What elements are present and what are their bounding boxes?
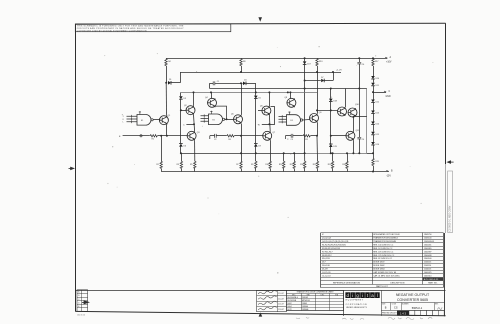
svg-text:INTEGRATED CKT DEC74-09: INTEGRATED CKT DEC74-09 <box>373 233 399 236</box>
wire R13 to rail <box>317 66 319 72</box>
title block drawing title <box>381 290 383 316</box>
scan speckles <box>196 71 197 72</box>
svg-text:RES. 270 1/4W 10% CC: RES. 270 1/4W 10% CC <box>373 255 395 257</box>
svg-text:R4: R4 <box>168 61 170 63</box>
wire Q3 emitter to R5 <box>194 140 196 161</box>
diode D14 <box>373 113 375 121</box>
wire Q10 emitter to box edge <box>356 116 367 118</box>
svg-text:D19: D19 <box>333 146 336 148</box>
wire D18 to Q11 base <box>330 101 332 135</box>
wire D17 down left box edge <box>304 64 306 153</box>
svg-text:R3,R6,R13,R14,R18: R3,R6,R13,R14,R18 <box>322 248 340 250</box>
wire Q7 collector to Q6 emitter <box>268 115 271 131</box>
top centering mark <box>258 17 262 22</box>
gate E3 input stubs <box>288 112 290 115</box>
diode D5 <box>254 96 258 99</box>
pencil marks below title block <box>388 317 432 320</box>
resistor R15 <box>294 153 296 161</box>
svg-text:DIODE D662: DIODE D662 <box>373 265 384 267</box>
diode D13 <box>373 102 375 110</box>
diode D6 <box>179 144 183 147</box>
svg-text:D4: D4 <box>244 80 246 82</box>
svg-text:A-PL-5605-0-1D: A-PL-5605-0-1D <box>424 278 439 281</box>
revision pointer arrow <box>84 300 90 304</box>
svg-text:DEC3009B-S: DEC3009B-S <box>287 297 298 299</box>
gate E1 <box>137 115 153 126</box>
svg-text:l: l <box>377 293 378 298</box>
svg-text:C O R P O R A T I O N: C O R P O R A T I O N <box>346 303 367 306</box>
svg-text:R2: R2 <box>156 164 158 166</box>
right edge fold strip with vertical drawing number <box>448 171 453 233</box>
svg-text:C1: C1 <box>217 81 219 83</box>
svg-text:D12: D12 <box>376 102 379 104</box>
svg-text:1300365: 1300365 <box>424 248 432 250</box>
svg-text:1503409-01: 1503409-01 <box>424 241 434 243</box>
svg-text:1N3606: 1N3606 <box>302 306 308 308</box>
svg-text:1503100: 1503100 <box>424 238 432 240</box>
resistor R14 <box>283 153 285 161</box>
svg-text:RES. 82 1/4W 5% CC: RES. 82 1/4W 5% CC <box>373 258 393 260</box>
svg-text:D662: D662 <box>287 303 291 305</box>
wire -15V bottom bus <box>161 171 388 173</box>
diode D3 <box>180 92 182 96</box>
svg-text:D5: D5 <box>258 98 260 100</box>
diode D18 <box>330 89 332 99</box>
svg-text:R14: R14 <box>279 164 282 166</box>
wire C6 down <box>359 64 361 137</box>
svg-text:Q1,Q2,Q3: Q1,Q2,Q3 <box>322 238 331 240</box>
wire RC branch B <box>284 136 286 139</box>
svg-text:NEGATIVE OUTPUT: NEGATIVE OUTPUT <box>396 293 430 297</box>
svg-text:C4: C4 <box>362 139 364 141</box>
svg-text:+10V: +10V <box>386 62 392 64</box>
svg-text:1300397: 1300397 <box>424 251 432 253</box>
svg-text:REV.: REV. <box>435 304 439 306</box>
gate E1 input stubs <box>139 111 141 114</box>
svg-text:CONVERTER 5605: CONVERTER 5605 <box>397 298 428 302</box>
wire Q6 emitter hook to D node <box>271 106 275 108</box>
svg-text:E3: E3 <box>291 120 293 122</box>
svg-text:D9: D9 <box>258 145 260 147</box>
resistor R17 <box>372 58 374 65</box>
svg-text:CAP .01 MFD 100V 20% DISC: CAP .01 MFD 100V 20% DISC <box>373 274 400 277</box>
signature row ENG <box>258 301 277 304</box>
diode D9 <box>254 144 258 147</box>
wire Q6 collector to driver bus <box>269 92 271 106</box>
node GND junction <box>372 91 374 93</box>
left centering mark <box>70 167 75 171</box>
transistor and diode conversion chart <box>286 290 343 310</box>
wire Q9 emitter down <box>317 122 319 135</box>
resistor R13 <box>316 58 318 65</box>
wire Q6 base stub <box>258 110 262 112</box>
diode D15 <box>373 124 375 132</box>
svg-text:+1.2V: +1.2V <box>336 70 342 72</box>
svg-text:NUMBER: NUMBER <box>402 304 409 306</box>
wire driver bus y92.4 (gray) <box>181 92 317 94</box>
svg-text:CS 5605-0-1 NEG CONV: CS 5605-0-1 NEG CONV <box>450 205 452 231</box>
wire Q8 collector to driver bus <box>290 92 292 98</box>
svg-text:TRANSISTOR DEC3009B-S: TRANSISTOR DEC3009B-S <box>373 237 398 240</box>
svg-text:REFERENCE DESIGNATION: REFERENCE DESIGNATION <box>333 281 361 284</box>
diode D19 <box>330 136 332 144</box>
diode D10 <box>371 76 375 79</box>
signature row CHK <box>258 296 277 299</box>
svg-text:R7: R7 <box>236 164 238 166</box>
svg-text:Q4,Q5,Q6,Q7,Q8,Q9,Q10,Q11: Q4,Q5,Q6,Q7,Q8,Q9,Q10,Q11 <box>322 241 348 243</box>
wire R17 to D10 <box>373 66 375 76</box>
svg-text:C5: C5 <box>291 139 293 141</box>
svg-text:R1: R1 <box>152 139 154 141</box>
transistor Q7 (stage2 lower) <box>263 131 272 140</box>
svg-text:R16: R16 <box>300 164 303 166</box>
resistor R4 <box>165 58 167 65</box>
svg-text:CODE: CODE <box>392 304 396 306</box>
right centering mark <box>446 160 451 164</box>
transistor Q1 <box>159 116 168 125</box>
wire Q9 collector up to rail <box>317 72 319 114</box>
wire bottom collector rail y153 <box>181 153 305 155</box>
svg-text:CS: CS <box>394 307 398 310</box>
svg-text:PARTS LIST: PARTS LIST <box>376 285 388 288</box>
svg-text:TRANSISTOR & DIODE CONVERSION: TRANSISTOR & DIODE CONVERSION CHART <box>297 291 335 294</box>
svg-text:D664: D664 <box>287 306 291 308</box>
wire Q2 base stub <box>181 110 186 112</box>
wire D16 to rail node <box>373 145 375 159</box>
signature row DRN <box>258 290 277 293</box>
wire E1 output to Q1 base <box>153 119 159 121</box>
wire top +10V bus <box>166 58 387 60</box>
resistor R12 <box>316 136 319 161</box>
capacitor C4 <box>357 137 361 139</box>
svg-text:DIODE D672: DIODE D672 <box>373 262 384 264</box>
title block printed circuit rev row <box>381 310 444 312</box>
svg-text:16C 05 1b: 16C 05 1b <box>77 314 85 316</box>
wire Q2 collector to driver bus <box>193 92 195 105</box>
wire gate bus y83 with C1 and D4 <box>209 83 211 88</box>
wire D1 to +1.2V rail corner <box>171 82 181 84</box>
svg-text:R12: R12 <box>313 164 316 166</box>
svg-text:12-8-67: 12-8-67 <box>278 309 284 311</box>
svg-text:R8: R8 <box>243 61 245 63</box>
svg-text:DEC6534B: DEC6534B <box>287 300 297 302</box>
resistor R20 <box>347 153 349 161</box>
svg-text:12-4-67: 12-4-67 <box>278 293 284 295</box>
transistor Q2 <box>186 106 195 115</box>
svg-text:D10: D10 <box>376 78 379 80</box>
resistor R19 <box>372 158 374 165</box>
title block digital logo <box>343 289 345 291</box>
wire Q1 collector to D1 node <box>165 83 167 116</box>
diode D12 <box>373 92 375 99</box>
resistor R6 <box>227 135 234 137</box>
svg-text:2N3009: 2N3009 <box>302 297 308 299</box>
svg-text:D14: D14 <box>376 124 379 126</box>
svg-text:D10-D16: D10-D16 <box>322 265 330 267</box>
wire Q4 collector to driver bus <box>211 92 213 98</box>
svg-text:DIODE D664: DIODE D664 <box>373 269 385 271</box>
transistor Q6 <box>262 106 271 115</box>
resistor R1 <box>150 135 157 137</box>
svg-text:D672: D672 <box>287 309 291 311</box>
wire +1.2V rail <box>180 72 341 74</box>
svg-text:1001610: 1001610 <box>424 275 432 277</box>
svg-text:1300146: 1300146 <box>424 258 432 260</box>
svg-text:12-4-67: 12-4-67 <box>278 298 284 300</box>
svg-text:D18: D18 <box>333 101 336 103</box>
resistor R3 <box>181 153 183 161</box>
svg-text:R10: R10 <box>265 164 268 166</box>
node C input junction <box>193 123 195 125</box>
svg-text:1105114: 1105114 <box>424 265 432 267</box>
svg-text:E2: E2 <box>213 120 215 122</box>
svg-text:C6: C6 <box>362 64 364 66</box>
capacitor C1 <box>213 81 215 85</box>
svg-text:DESCRIPTION: DESCRIPTION <box>390 282 405 284</box>
wire Q9 collector node to Q10 base <box>317 110 338 112</box>
resistor R7 <box>241 136 243 161</box>
svg-text:D7: D7 <box>321 77 323 79</box>
svg-text:J: J <box>123 116 124 118</box>
svg-text:1N645: 1N645 <box>302 303 307 305</box>
svg-text:R15: R15 <box>290 164 293 166</box>
wire D7 to rail step <box>324 80 333 82</box>
svg-text:R11: R11 <box>305 139 308 141</box>
svg-text:RES. 1K 1/4W 5% CC: RES. 1K 1/4W 5% CC <box>373 248 393 250</box>
svg-text:1 4 3: 1 4 3 <box>400 311 406 315</box>
svg-text:TRANSISTOR DEC6534B: TRANSISTOR DEC6534B <box>373 240 396 243</box>
resistor R8 <box>240 58 242 65</box>
svg-text:CAP 10 MFD 10V 10% TA: CAP 10 MFD 10V 10% TA <box>373 271 396 274</box>
svg-text:1105115: 1105115 <box>424 262 431 264</box>
transistor Q8 (pull-up) <box>287 98 296 107</box>
wire Q4 emitter to E2 output node <box>215 106 227 119</box>
svg-text:R5: R5 <box>190 164 192 166</box>
svg-text:1N964B: 1N964B <box>302 309 309 311</box>
resistor R5 <box>194 161 196 168</box>
wire E3 output to Q9 base <box>303 119 310 122</box>
svg-text:R13: R13 <box>319 61 322 63</box>
svg-text:D1-D9: D1-D9 <box>322 269 328 271</box>
svg-text:SIZE: SIZE <box>382 304 385 306</box>
wire Q10 collector up <box>345 89 347 108</box>
svg-text:PART NO.: PART NO. <box>428 281 438 284</box>
transistor Q3 <box>187 131 196 140</box>
notice box (proprietary note) <box>75 24 231 32</box>
parts list table grid <box>321 232 443 234</box>
svg-text:D16: D16 <box>376 144 379 146</box>
wire D5 down to D9 <box>255 98 257 143</box>
svg-text:D6: D6 <box>184 145 186 147</box>
svg-text:RES. 470 1/4W 5% CC: RES. 470 1/4W 5% CC <box>373 251 394 253</box>
capacitor C5 <box>291 134 293 138</box>
svg-text:C1,C2,C3: C1,C2,C3 <box>322 275 331 277</box>
wire Q3 base from E node <box>167 135 187 137</box>
terminal C GND <box>373 92 386 94</box>
resistor R10 <box>269 161 271 168</box>
svg-text:C2: C2 <box>214 139 216 141</box>
wire Q5 collector up <box>241 83 243 115</box>
svg-text:D3: D3 <box>184 98 186 100</box>
node D input junction <box>268 123 270 125</box>
svg-text:12-6-67: 12-6-67 <box>278 304 284 306</box>
svg-text:R18: R18 <box>328 164 331 166</box>
wire Q3 collector to Q2 emitter <box>194 115 195 132</box>
capacitor C6 <box>359 58 361 62</box>
wire Q7 base from node <box>241 135 263 137</box>
gate E2 input stubs <box>210 111 212 114</box>
wire E2 output to Q5 base <box>225 119 234 121</box>
diode D11 <box>371 83 375 86</box>
diode D4 <box>243 82 246 86</box>
svg-text:D17: D17 <box>307 63 310 65</box>
svg-text:RES. 100 1/4W 5% CC: RES. 100 1/4W 5% CC <box>373 244 394 246</box>
diode D1 <box>168 81 171 85</box>
svg-text:1300241: 1300241 <box>424 244 432 246</box>
gate E2 <box>209 114 225 125</box>
wire box top bus y88.5 <box>210 88 367 90</box>
svg-text:1000025: 1000025 <box>424 272 432 274</box>
svg-text:1300438: 1300438 <box>424 255 432 257</box>
bottom band top rule <box>75 290 445 292</box>
wire R1 to Q1 emitter node <box>157 135 167 137</box>
diode D16 <box>373 135 375 142</box>
wire D6 to bottom rail <box>180 146 182 153</box>
transistor Q10 <box>338 107 347 116</box>
wire Q7 emitter to R10 <box>270 140 272 161</box>
transistor Q5 <box>234 115 243 124</box>
svg-text:R8,R9,R12: R8,R9,R12 <box>322 255 332 257</box>
svg-text:R3: R3 <box>177 164 179 166</box>
svg-text:i: i <box>362 293 363 298</box>
svg-text:1100113: 1100113 <box>424 269 431 271</box>
wire RC branch A <box>209 136 211 139</box>
svg-text:MPS6534: MPS6534 <box>302 300 310 302</box>
capacitor C2 <box>215 134 217 138</box>
wire Q11 emitter down <box>353 140 355 153</box>
resistor R11 <box>303 135 310 137</box>
diode D7 horizontal <box>305 80 321 82</box>
svg-text:R20: R20 <box>342 164 345 166</box>
signature block <box>257 290 287 311</box>
transistor Q10B <box>348 108 357 117</box>
svg-text:E Q U I P M E N T: E Q U I P M E N T <box>346 299 364 301</box>
wire box right edge <box>366 89 368 154</box>
resistor R2 <box>161 136 163 161</box>
svg-text:R7,R11,R17: R7,R11,R17 <box>322 251 333 253</box>
svg-text:R17: R17 <box>375 61 378 63</box>
wire R4 bottom to D1 node <box>166 66 168 83</box>
node D1-collector junction <box>165 82 167 84</box>
transistor Q4 (pull-up) <box>208 98 217 107</box>
title block size code number row <box>381 302 444 304</box>
svg-text:D13: D13 <box>376 113 379 115</box>
svg-text:R10,R19: R10,R19 <box>322 258 330 260</box>
resistor R18 <box>332 153 334 161</box>
svg-text:R9: R9 <box>251 164 253 166</box>
resistor R9 <box>255 153 257 161</box>
wire R8 to rail <box>241 66 243 72</box>
signature row PROD <box>258 306 277 309</box>
bottom centering mark <box>259 312 263 316</box>
svg-text:1909756: 1909756 <box>424 234 432 236</box>
wire Q1 emitter to E node <box>166 125 168 136</box>
transistor Q9 <box>310 114 319 123</box>
svg-text:R19: R19 <box>375 161 378 163</box>
wire Q11 collector up <box>353 117 355 131</box>
svg-text:C4,C5,C6: C4,C5,C6 <box>322 272 331 274</box>
diode D17 <box>304 58 306 61</box>
svg-text:R6: R6 <box>228 139 230 141</box>
svg-text:D17: D17 <box>322 262 326 264</box>
svg-text:COPYRIGHT 1968 BY DIGITAL EQUI: COPYRIGHT 1968 BY DIGITAL EQUIPMENT CORP… <box>77 29 147 32</box>
svg-text:-15V: -15V <box>386 176 391 178</box>
svg-text:5605-0-1: 5605-0-1 <box>412 306 423 310</box>
svg-text:GND: GND <box>386 96 391 98</box>
revision block <box>77 290 88 312</box>
svg-text:D11: D11 <box>376 85 379 87</box>
svg-text:L: L <box>123 122 124 124</box>
svg-text:R1,R2,R4,R5,R15,R16,R20: R1,R2,R4,R5,R15,R16,R20 <box>322 244 346 246</box>
transistor Q11 <box>346 131 355 140</box>
wire D3 down to D6 <box>180 99 182 143</box>
wire C1 to D4 <box>215 83 243 85</box>
svg-text:i: i <box>352 293 353 298</box>
parts list row A-PL number <box>423 277 443 280</box>
svg-text:D15: D15 <box>376 134 379 136</box>
wire Q5 emitter down <box>241 124 243 136</box>
wire D4 to D5 line <box>246 83 256 85</box>
resistor R16 <box>304 153 306 161</box>
svg-text:D1: D1 <box>169 79 171 81</box>
svg-text:E1: E1 <box>141 120 143 122</box>
gate E3 <box>287 115 303 126</box>
